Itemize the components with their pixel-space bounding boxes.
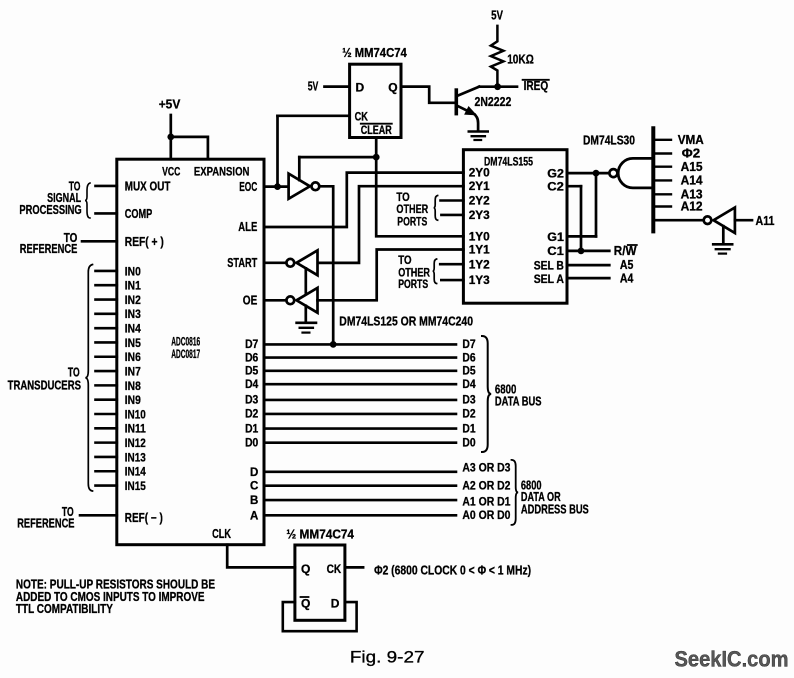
- svg-text:½ MM74C74: ½ MM74C74: [342, 46, 407, 60]
- svg-text:C: C: [250, 481, 258, 493]
- svg-text:G1: G1: [547, 230, 564, 244]
- svg-text:A3 OR D3: A3 OR D3: [462, 461, 510, 475]
- svg-text:A: A: [250, 510, 258, 522]
- svg-text:ADC0817: ADC0817: [171, 347, 200, 361]
- svg-text:2Y2: 2Y2: [469, 194, 490, 208]
- svg-text:A1 OR D1: A1 OR D1: [462, 495, 510, 509]
- svg-text:A15: A15: [681, 160, 703, 174]
- svg-text:C2: C2: [547, 179, 564, 193]
- svg-text:IN5: IN5: [125, 336, 141, 350]
- svg-text:IN11: IN11: [125, 422, 146, 436]
- svg-text:IN12: IN12: [125, 436, 146, 450]
- svg-text:D4: D4: [245, 379, 259, 391]
- svg-text:D: D: [331, 597, 340, 611]
- svg-text:IN9: IN9: [125, 393, 141, 407]
- svg-text:D4: D4: [462, 379, 476, 391]
- svg-text:IREQ: IREQ: [524, 79, 549, 93]
- svg-text:2Y0: 2Y0: [469, 166, 490, 180]
- svg-text:D2: D2: [245, 409, 258, 421]
- svg-text:Φ2: Φ2: [682, 147, 700, 161]
- svg-text:DM74LS125 OR MM74C240: DM74LS125 OR MM74C240: [339, 314, 473, 328]
- svg-text:REF( + ): REF( + ): [125, 235, 164, 249]
- svg-text:A11: A11: [756, 214, 775, 228]
- svg-text:D3: D3: [245, 395, 258, 407]
- svg-text:EOC: EOC: [239, 180, 257, 194]
- svg-text:IN8: IN8: [125, 379, 141, 393]
- svg-text:A5: A5: [620, 258, 634, 272]
- svg-text:D5: D5: [462, 366, 476, 378]
- svg-text:IN6: IN6: [125, 350, 141, 364]
- svg-text:D6: D6: [462, 352, 475, 364]
- svg-text:A14: A14: [681, 174, 703, 188]
- svg-text:1Y2: 1Y2: [469, 257, 490, 271]
- svg-text:TTL COMPATIBILITY: TTL COMPATIBILITY: [16, 602, 114, 616]
- svg-text:DM74LS30: DM74LS30: [583, 133, 635, 147]
- svg-text:D1: D1: [245, 423, 259, 435]
- svg-text:+5V: +5V: [159, 98, 181, 112]
- svg-text:5V: 5V: [491, 9, 503, 23]
- svg-text:IN3: IN3: [125, 307, 141, 321]
- svg-text:D5: D5: [245, 366, 259, 378]
- svg-text:SEL B: SEL B: [534, 258, 564, 272]
- svg-text:D1: D1: [462, 423, 476, 435]
- svg-text:A12: A12: [681, 200, 703, 214]
- svg-text:OE: OE: [243, 294, 258, 308]
- svg-text:IN15: IN15: [125, 479, 146, 493]
- svg-text:A4: A4: [620, 272, 634, 286]
- svg-text:REFERENCE: REFERENCE: [17, 517, 74, 531]
- svg-text:TO: TO: [68, 366, 80, 380]
- svg-text:1Y0: 1Y0: [469, 229, 490, 243]
- svg-text:SEL A: SEL A: [534, 272, 564, 286]
- svg-text:CLEAR: CLEAR: [361, 125, 393, 137]
- svg-text:10KΩ: 10KΩ: [507, 53, 534, 67]
- svg-text:B: B: [250, 495, 258, 507]
- svg-text:D0: D0: [245, 438, 258, 450]
- svg-text:D0: D0: [462, 438, 475, 450]
- svg-text:D6: D6: [245, 352, 258, 364]
- svg-text:TRANSDUCERS: TRANSDUCERS: [8, 379, 81, 393]
- svg-text:CK: CK: [327, 562, 342, 576]
- svg-text:REF( − ): REF( − ): [125, 511, 163, 525]
- svg-text:½ MM74C74: ½ MM74C74: [286, 527, 354, 541]
- svg-text:IN14: IN14: [125, 465, 146, 479]
- svg-text:2Y3: 2Y3: [469, 208, 490, 222]
- svg-text:CLK: CLK: [212, 527, 231, 541]
- svg-text:SeekIC.com: SeekIC.com: [675, 647, 789, 672]
- svg-text:MUX OUT: MUX OUT: [125, 179, 171, 193]
- svg-text:D3: D3: [462, 395, 475, 407]
- svg-text:1Y1: 1Y1: [469, 243, 490, 257]
- svg-text:D7: D7: [245, 339, 258, 351]
- svg-text:1Y3: 1Y3: [469, 273, 490, 287]
- svg-text:5V: 5V: [308, 79, 319, 93]
- svg-text:IN1: IN1: [125, 279, 141, 293]
- svg-text:IN7: IN7: [125, 364, 141, 378]
- svg-text:C1: C1: [547, 244, 564, 258]
- svg-text:IN2: IN2: [125, 293, 141, 307]
- svg-text:Fig. 9-27: Fig. 9-27: [350, 649, 425, 667]
- svg-text:VMA: VMA: [678, 133, 704, 147]
- svg-text:A2 OR D2: A2 OR D2: [462, 478, 510, 492]
- svg-text:IN4: IN4: [125, 322, 141, 336]
- svg-text:D: D: [356, 80, 365, 94]
- svg-text:REFERENCE: REFERENCE: [20, 242, 78, 256]
- svg-text:D7: D7: [462, 339, 475, 351]
- svg-text:Q: Q: [388, 80, 397, 94]
- svg-text:EXPANSION: EXPANSION: [194, 165, 250, 179]
- svg-text:PORTS: PORTS: [398, 277, 428, 291]
- svg-text:Q: Q: [301, 597, 310, 611]
- svg-text:D2: D2: [462, 409, 475, 421]
- svg-text:PORTS: PORTS: [397, 215, 427, 229]
- svg-text:IN0: IN0: [125, 264, 141, 278]
- svg-text:COMP: COMP: [125, 207, 153, 221]
- svg-text:2Y1: 2Y1: [469, 179, 490, 193]
- svg-text:START: START: [227, 256, 257, 270]
- svg-text:ALE: ALE: [238, 220, 257, 234]
- svg-text:DM74LS155: DM74LS155: [484, 154, 533, 168]
- svg-text:IN13: IN13: [125, 450, 146, 464]
- svg-text:DATA BUS: DATA BUS: [495, 394, 542, 408]
- svg-text:CK: CK: [355, 110, 369, 124]
- svg-text:PROCESSING: PROCESSING: [19, 203, 81, 217]
- svg-text:A0 OR D0: A0 OR D0: [462, 508, 510, 522]
- svg-text:IN10: IN10: [125, 407, 146, 421]
- svg-text:ADDRESS BUS: ADDRESS BUS: [521, 503, 589, 517]
- svg-text:2N2222: 2N2222: [475, 95, 512, 109]
- svg-text:VCC: VCC: [162, 165, 180, 179]
- svg-text:Φ2 (6800 CLOCK 0 < Φ < 1 MHz): Φ2 (6800 CLOCK 0 < Φ < 1 MHz): [374, 564, 531, 578]
- svg-text:R/W: R/W: [614, 244, 637, 258]
- svg-text:D: D: [250, 467, 258, 479]
- svg-text:Q: Q: [301, 562, 310, 576]
